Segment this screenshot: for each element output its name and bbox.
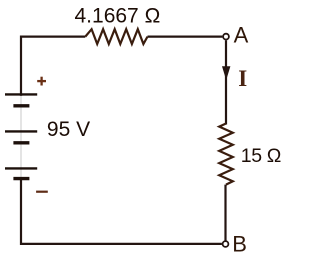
wire top-left horizontal (battery + to resistor) xyxy=(21,37,85,96)
wire right vertical (node A to resistor R2) xyxy=(225,40,227,124)
svg-text:15 Ω: 15 Ω xyxy=(241,145,281,167)
node B circle xyxy=(223,241,229,247)
battery cell 2 short plate xyxy=(13,141,29,144)
svg-text:4.1667 Ω: 4.1667 Ω xyxy=(75,5,161,28)
resistor R2 15 ohm (right vertical zigzag) xyxy=(219,124,233,185)
wire bottom horizontal (node B to battery minus) xyxy=(21,178,222,244)
node A circle xyxy=(223,34,229,40)
svg-text:I: I xyxy=(238,66,247,91)
svg-text:B: B xyxy=(232,232,247,257)
resistor R1 4.1667 ohm (top horizontal zigzag) xyxy=(85,29,147,44)
battery cell 3 long plate xyxy=(5,167,37,169)
battery cell 2 long plate xyxy=(5,130,37,132)
battery plus sign xyxy=(37,77,46,86)
current arrow I (arrowhead down) xyxy=(222,66,230,80)
wire top horizontal (resistor to node A) xyxy=(148,35,223,37)
battery cell 1 long plate xyxy=(5,93,37,95)
svg-text:A: A xyxy=(234,23,249,48)
battery cell 1 short plate xyxy=(13,104,29,107)
battery cell 3 short plate xyxy=(13,177,29,180)
battery internal faint line xyxy=(20,95,22,178)
wire right vertical (resistor R2 to node B) xyxy=(224,185,226,241)
battery minus sign xyxy=(36,191,48,193)
svg-text:95 V: 95 V xyxy=(47,118,90,141)
